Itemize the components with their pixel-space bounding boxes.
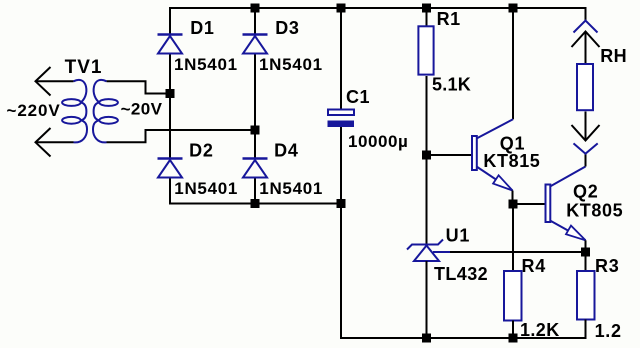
junction Q1 base / R1 / U1 (422, 151, 431, 160)
svg-text:TV1: TV1 (65, 57, 103, 78)
svg-text:U1: U1 (446, 226, 471, 246)
wire U1 reference to output node (450, 251, 586, 253)
transistor Q1 emitter lead (477, 167, 513, 191)
svg-text:5.1K: 5.1K (432, 75, 471, 95)
resistor R3 body (577, 271, 595, 320)
svg-text:1N5401: 1N5401 (174, 179, 238, 198)
svg-text:~20V: ~20V (121, 100, 163, 119)
junction AC node 2 secondary tap (251, 126, 260, 135)
transistor Q2 emitter arrow (566, 226, 586, 241)
resistor R1 body (418, 26, 433, 74)
wire Q2 collector up to RH plug (585, 154, 587, 167)
wire D3 cathode to top rail (254, 7, 256, 35)
svg-text:TL432: TL432 (434, 264, 488, 284)
heater RH body (577, 64, 593, 110)
wire top rail to Q1 collector (512, 7, 514, 119)
wire D2 anode down and right to negative node (170, 178, 341, 204)
wire primary bottom lead (36, 141, 74, 143)
wire output node down to R3 (585, 252, 587, 271)
wire top rail corner down to RH connector (585, 8, 587, 20)
svg-text:D1: D1 (190, 18, 215, 38)
junction top rail / D3 (251, 4, 260, 13)
junction output node Q2 emitter / R3 / U1 ref (581, 248, 590, 257)
junction bottom rail / U1 anode (422, 334, 431, 343)
wire R3 bottom to bottom rail (585, 320, 587, 339)
junction negative node D4 (251, 199, 260, 208)
svg-text:1N5401: 1N5401 (259, 55, 323, 74)
svg-text:1.2: 1.2 (595, 321, 622, 341)
wire Q1 emitter to node (512, 191, 514, 205)
connector socket chevron bottom (blue) (574, 143, 598, 153)
wire R1 top lead (426, 7, 428, 26)
svg-text:KT805: KT805 (566, 201, 623, 221)
wire Q1 emitter node down to R4 (512, 204, 514, 271)
wire D4 anode down to negative node (254, 178, 256, 204)
wire D1 cathode to top rail (169, 7, 171, 35)
junction top rail / Q1 collector (509, 4, 518, 13)
terminal arrow ~220V top (36, 67, 51, 96)
wire C1 bottom lead / negative rail down (341, 127, 587, 338)
transistor Q2 body bar (546, 185, 551, 223)
wire primary top lead (36, 80, 74, 82)
wire RH body to bottom plug (585, 112, 587, 141)
svg-text:1.2K: 1.2K (520, 320, 560, 340)
svg-text:R1: R1 (437, 9, 461, 29)
wire Q2 emitter to output node (585, 240, 587, 252)
svg-text:1N5401: 1N5401 (174, 55, 238, 74)
wire plug to RH body (585, 32, 587, 64)
transistor Q1 emitter arrow (493, 175, 512, 190)
svg-text:KT815: KT815 (483, 151, 540, 171)
transformer TV1 primary winding (62, 80, 87, 143)
diode D2 (158, 159, 183, 178)
resistor R4 body (504, 271, 522, 321)
diode D4 (243, 159, 268, 178)
svg-text:1N5401: 1N5401 (259, 179, 323, 198)
terminal arrow ~220V bottom (36, 128, 51, 157)
svg-text:R3: R3 (595, 256, 620, 276)
svg-text:D2: D2 (189, 141, 214, 161)
connector socket chevron top (blue) (574, 21, 598, 33)
svg-text:10000µ: 10000µ (348, 132, 408, 151)
wire D3 anode to D4 cathode (AC node 2) (254, 53, 256, 158)
wire D1 anode to D2 cathode (AC node 1) (169, 53, 171, 158)
diode D3 (243, 35, 268, 54)
diode D1 (158, 35, 183, 54)
junction Q1 emitter / Q2 base / R4 (509, 200, 518, 209)
svg-text:Q2: Q2 (573, 182, 599, 202)
svg-text:RH: RH (600, 46, 627, 66)
wire secondary top lead to AC node 1 (107, 81, 172, 93)
transistor Q1 collector lead (477, 119, 514, 138)
transformer TV1 secondary winding (93, 80, 118, 143)
wire Q1 emitter node to Q2 base (513, 203, 546, 205)
transistor Q2 collector lead (550, 167, 586, 187)
junction AC node 1 secondary tap (166, 89, 175, 98)
svg-text:D4: D4 (274, 141, 299, 161)
transistor Q2 emitter lead (550, 221, 586, 241)
transistor Q1 body bar (472, 136, 477, 170)
connector plug arrow top (black) (572, 32, 600, 48)
svg-text:R4: R4 (522, 256, 547, 276)
junction top rail / R1 (422, 4, 431, 13)
wire R1 bottom to U1 cathode (Q1 base node) (426, 76, 428, 245)
junction bottom rail / R4 (509, 334, 518, 343)
junction top rail / C1 (337, 4, 346, 13)
wire secondary bottom lead to AC node 2 (107, 130, 257, 142)
shunt regulator U1 TL432 (407, 240, 450, 262)
wire Q1 base lead (427, 154, 473, 156)
svg-text:C1: C1 (346, 87, 370, 107)
svg-text:D3: D3 (275, 18, 300, 38)
wire C1 top lead (340, 7, 342, 109)
wire U1 anode to bottom rail (426, 261, 428, 338)
connector plug arrow bottom (black) (572, 125, 600, 141)
capacitor C1 plates (328, 110, 354, 116)
junction negative node C1 (337, 199, 346, 208)
svg-text:~220V: ~220V (7, 101, 61, 120)
wire R4 bottom to bottom rail (512, 321, 514, 339)
wire top positive rail (169, 7, 587, 9)
